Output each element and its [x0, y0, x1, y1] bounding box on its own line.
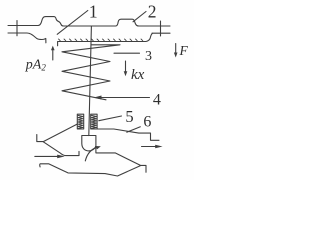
wire beam center line — [63, 25, 116, 27]
diaphragm capsule 1 (left bump) — [38, 17, 64, 26]
upper right channel with step — [97, 129, 159, 140]
svg-text:4: 4 — [153, 91, 161, 108]
kx spring force arrow shaft — [125, 61, 127, 72]
seat right floor to right nozzle — [96, 153, 146, 172]
svg-text:1: 1 — [89, 1, 98, 21]
diaphragm capsule 2 (right bump) — [116, 19, 139, 26]
F arrowhead — [174, 53, 178, 58]
corrugated wall line with left end tick — [58, 33, 153, 46]
svg-text:F: F — [179, 43, 189, 58]
left supply arrowhead — [57, 155, 65, 159]
pA2 arrowhead — [51, 46, 55, 51]
label 2 pointer — [133, 12, 146, 22]
left supply arrow line — [35, 155, 58, 157]
svg-text:3: 3 — [145, 49, 152, 64]
right output arrowhead — [155, 145, 162, 149]
corrugation hatch ticks — [59, 39, 144, 41]
label 3 pointer — [114, 52, 140, 54]
right output arrow line — [142, 146, 157, 148]
label 1 pointer — [57, 11, 88, 35]
rod (vertical) — [89, 26, 92, 136]
left nozzle upper wall — [43, 124, 77, 142]
label 5 pointer — [99, 116, 122, 121]
label 4 arrowhead — [94, 96, 102, 100]
svg-text:pA2: pA2 — [25, 57, 47, 72]
spring 3 (zigzag) — [62, 45, 120, 100]
right fixed support tick — [160, 21, 162, 36]
label 4 arrow line — [95, 97, 150, 99]
svg-text:2: 2 — [148, 2, 157, 22]
coil block left hatch — [78, 115, 83, 128]
F force arrow shaft — [175, 44, 177, 54]
kx arrowhead — [124, 71, 128, 76]
svg-text:6: 6 — [143, 114, 151, 131]
nozzle cup (flapper plug) — [82, 136, 96, 153]
left nozzle outlet bracket — [37, 135, 44, 142]
wire beam right line — [139, 25, 171, 27]
wire right arm lower line — [152, 32, 170, 34]
curved flow arrowhead — [95, 146, 101, 149]
curved flow arrow through seat — [85, 147, 97, 161]
left fixed support tick — [16, 21, 18, 36]
wire left arm top line — [8, 25, 38, 27]
coil block right outline — [91, 114, 97, 129]
coil block left outline — [77, 114, 83, 129]
svg-text:5: 5 — [125, 107, 133, 126]
wire left arm bottom line — [8, 33, 46, 43]
coil block right hatch — [91, 115, 96, 128]
label 6 pointer — [127, 127, 141, 132]
pA2 feedback arrow shaft — [52, 50, 54, 60]
svg-text:kx: kx — [131, 67, 145, 83]
bottom supply channel — [40, 164, 141, 176]
left nozzle lower wall and seat floor — [43, 142, 79, 156]
